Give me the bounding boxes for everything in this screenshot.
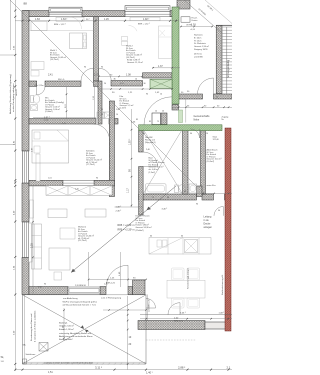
svg-text:1.63 ³: 1.63 ³ — [61, 18, 67, 21]
desk bedroom1 — [31, 22, 47, 31]
toilet bad — [175, 185, 179, 193]
kitchen counter — [149, 238, 211, 255]
svg-text:14: 14 — [155, 111, 157, 113]
window left 2 — [22, 222, 28, 258]
svg-text:(St 9cm): (St 9cm) — [194, 53, 202, 56]
svg-text:2,10: 2,10 — [38, 287, 42, 289]
svg-text:2,26: 2,26 — [75, 189, 79, 191]
svg-text:1,38 ³: 1,38 ³ — [116, 205, 122, 208]
svg-text:122,40: 122,40 — [213, 139, 220, 141]
wall green stub gemeinschaft — [179, 110, 183, 123]
window sash arc bedroom2 — [129, 25, 138, 31]
dim line abstell top — [196, 193, 232, 195]
window living bottom — [68, 287, 100, 294]
sofa living — [32, 224, 42, 269]
svg-text:90: 90 — [196, 204, 198, 206]
svg-text:20: 20 — [104, 83, 106, 85]
svg-text:90: 90 — [167, 197, 169, 199]
wall schlafen bottom — [29, 180, 63, 186]
svg-text:2,41: 2,41 — [48, 74, 53, 77]
dashed line dining — [146, 339, 196, 341]
svg-text:Steigung 18/26: Steigung 18/26 — [194, 48, 208, 51]
dining chairs top — [167, 268, 205, 308]
dim line gemeinschaft — [172, 106, 232, 108]
door terrace living — [106, 265, 128, 287]
radiator bedroom2 — [130, 17, 160, 21]
beam line bedroom1 — [29, 30, 94, 32]
svg-text:(Wpg und F): (Wpg und F) — [145, 142, 156, 144]
svg-text:1,40 ³: 1,40 ³ — [146, 371, 153, 375]
svg-text:FB: LG: FB: LG — [58, 79, 65, 81]
wall bad east vertical — [183, 129, 189, 194]
door wc — [37, 86, 45, 94]
svg-text:Gemeinschafts: Gemeinschafts — [194, 115, 211, 118]
svg-text:unten Flur: unten Flur — [207, 184, 216, 187]
svg-text:1.37: 1.37 — [158, 65, 163, 68]
wall green band mid horizontal — [139, 125, 222, 131]
dim column dining west — [120, 252, 122, 287]
wall bedroom1 bottom — [29, 81, 37, 86]
svg-text:Erweiterung über Rinne und: Erweiterung über Rinne und — [30, 313, 33, 341]
svg-text:2,1: 2,1 — [227, 365, 231, 369]
leader line left — [0, 144, 15, 146]
dining table — [167, 280, 205, 298]
svg-text:14: 14 — [206, 133, 208, 135]
svg-text:2,26 BRH 90: 2,26 BRH 90 — [75, 285, 86, 287]
wall red east vertical — [225, 128, 231, 331]
wall bottom living room — [29, 287, 68, 295]
wall left exterior — [22, 11, 29, 152]
svg-text:90: 90 — [143, 133, 145, 135]
diagonal section line main — [10, 0, 197, 187]
svg-text:Laufsteg in Stahl (verzinkt) a: Laufsteg in Stahl (verzinkt) auf Drehste… — [44, 362, 94, 365]
svg-text:Gesamt: 3,90 m²: Gesamt: 3,90 m² — [194, 45, 209, 48]
nightstand bedroom2 b — [122, 41, 128, 45]
dim line wohnen door — [89, 279, 147, 281]
svg-text:1.92 ³: 1.92 ³ — [143, 18, 149, 21]
nightstand bedroom2 a — [122, 37, 128, 41]
svg-text:St: Werkstein: St: Werkstein — [194, 42, 206, 45]
svg-text:2,88 ³: 2,88 ³ — [178, 365, 185, 369]
wardrobe hall boxes — [97, 112, 104, 119]
svg-text:BRH + 1,32 ³: BRH + 1,32 ³ — [54, 23, 66, 26]
wall shaft block — [197, 186, 203, 197]
escape route arrow — [71, 186, 176, 273]
svg-text:2,07: 2,07 — [94, 74, 99, 77]
svg-text:2,25: 2,25 — [31, 243, 34, 248]
wall green vertical east — [172, 7, 179, 104]
dim line dining south — [140, 318, 232, 320]
leader line top-left vertical — [10, 0, 12, 50]
svg-text:B4 x 2,13m: B4 x 2,13m — [35, 85, 45, 87]
dim column terrace right — [127, 296, 129, 370]
shaft green box hall — [150, 79, 172, 88]
svg-text:2,36 ³: 2,36 ³ — [116, 209, 122, 212]
svg-text:Bodengefälle²: Bodengefälle² — [59, 338, 73, 341]
svg-text:4 Jalousien als Fahne ausbilde: 4 Jalousien als Fahne ausbilden — [35, 310, 37, 342]
terrace bottom edge — [23, 363, 147, 365]
svg-text:3,06 ³: 3,06 ³ — [180, 312, 186, 315]
svg-text:14: 14 — [135, 79, 137, 81]
bed schlafen — [32, 130, 69, 163]
wall hall lower band — [111, 81, 143, 87]
window top 1 sill — [49, 7, 82, 13]
svg-text:Kasten: Kasten — [192, 19, 198, 22]
bad room X diagonal 1 — [143, 129, 182, 194]
svg-text:36: 36 — [114, 79, 116, 81]
svg-text:1,51: 1,51 — [48, 371, 53, 374]
svg-text:zum 2.¹Rettungsweg: zum 2.¹Rettungsweg — [101, 296, 122, 299]
dim line corridor bottom — [115, 206, 144, 208]
wall stair west vertical — [216, 25, 222, 93]
coffee table living — [49, 248, 70, 270]
svg-text:90: 90 — [190, 133, 192, 135]
wall abstell west vertical — [201, 129, 206, 194]
radiator wohnen left — [30, 200, 34, 218]
wall kitchen-bad band — [139, 194, 197, 200]
svg-text:90: 90 — [96, 178, 98, 180]
dim line top — [15, 20, 179, 22]
wire niche line gemeinschaft — [185, 99, 187, 123]
bathtub bad — [146, 184, 167, 194]
armchair living — [60, 228, 75, 239]
svg-text:14: 14 — [216, 97, 218, 99]
svg-text:Abdichtung und umlaufende Rinn: Abdichtung und umlaufende Rinne — [59, 335, 93, 338]
drain channel box SA — [39, 343, 48, 352]
wall bedroom divider vertical — [94, 17, 99, 81]
wall terrace planter band — [138, 321, 205, 330]
bed bedroom2 — [159, 26, 172, 59]
stair treads — [222, 27, 232, 90]
terrace right edge — [145, 295, 147, 365]
svg-text:1.63: 1.63 — [35, 18, 40, 21]
side table wohnen — [54, 272, 62, 280]
svg-text:1,17: 1,17 — [127, 188, 130, 193]
svg-text:1,92 ³: 1,92 ³ — [129, 139, 132, 145]
svg-text:+0,14: +0,14 — [190, 29, 195, 31]
door gang — [191, 129, 200, 138]
dim column wohnen mid — [88, 252, 90, 286]
dim schlafen top — [33, 116, 96, 118]
diagonal top right 1 — [184, 0, 223, 34]
door abstell east — [214, 207, 223, 216]
svg-text:1,01: 1,01 — [48, 178, 52, 180]
window small label box right top — [181, 17, 190, 22]
wardrobe row wohnen — [46, 186, 112, 196]
svg-text:Estrich 1,98 m³: Estrich 1,98 m³ — [59, 328, 74, 331]
wall top exterior — [23, 11, 49, 17]
svg-text:1,08 ³: 1,08 ³ — [219, 312, 225, 315]
radiator bedroom1 — [56, 17, 84, 21]
svg-text:20: 20 — [101, 114, 103, 116]
wall bad west vertical — [139, 131, 144, 152]
svg-text:(17,75m²): (17,75m²) — [86, 163, 95, 166]
svg-text:OK FB: OK FB — [186, 25, 192, 27]
svg-text:mit Gegenläufig: mit Gegenläufig — [226, 59, 230, 78]
dim line left column — [14, 0, 16, 371]
svg-text:BRH + 1,32 ³: BRH + 1,32 ³ — [138, 23, 150, 26]
dim line right top — [180, 26, 213, 28]
wall hall upper band — [143, 73, 173, 78]
svg-text:Nachweis: Nachweis — [194, 35, 203, 37]
sink bad — [189, 184, 197, 193]
svg-text:2,46: 2,46 — [146, 149, 150, 151]
bed bedroom1 — [70, 33, 87, 49]
svg-text:2,41: 2,41 — [44, 120, 48, 122]
svg-text:Abdichtung Wandanschluss (Ergä: Abdichtung Wandanschluss (Ergänzung) — [9, 74, 12, 114]
svg-text:anlegen: anlegen — [204, 226, 213, 229]
svg-text:90 ³: 90 ³ — [86, 18, 90, 21]
terrace X diagonal 2 — [23, 295, 147, 364]
bad room X diagonal 2 — [143, 129, 182, 194]
svg-text:20: 20 — [162, 111, 164, 113]
svg-text:85: 85 — [149, 121, 151, 123]
wall wc-hall vertical — [98, 81, 102, 124]
svg-text:Bodenpl.: Bodenpl. — [59, 323, 68, 325]
svg-text:(10,5m²): (10,5m²) — [207, 160, 215, 163]
svg-text:unterseitig, Abstellung Boden: unterseitig, Abstellung Boden auf — [59, 332, 91, 335]
svg-text:Nebe: Nebe — [194, 119, 200, 122]
dim line terrace door lower — [103, 309, 146, 311]
diagonal top right 2 — [205, 0, 232, 24]
svg-text:Stahlrinne: Stahlrinne — [26, 353, 37, 356]
wall shaft boxes hall — [152, 113, 161, 125]
door terrace side — [146, 299, 156, 309]
svg-text:14: 14 — [116, 114, 118, 116]
svg-text:(25x8m²): (25x8m²) — [136, 229, 144, 232]
svg-text:(25,75m²): (25,75m²) — [78, 239, 87, 242]
wall band below stair — [178, 94, 203, 99]
svg-text:1,25: 1,25 — [104, 284, 108, 286]
terrace left edge — [22, 295, 24, 365]
svg-text:88: 88 — [24, 2, 28, 6]
svg-text:WaPro Drainageunterlegend (p,E: WaPro Drainageunterlegend (p,EL) — [63, 300, 97, 303]
svg-text:14: 14 — [160, 94, 162, 96]
window top 2 sill — [125, 6, 170, 12]
svg-text:90: 90 — [146, 94, 148, 96]
svg-text:60: 60 — [181, 236, 183, 238]
svg-text:RFB = +2,35³ m: RFB = +2,35³ m — [118, 229, 135, 232]
svg-text:60: 60 — [150, 236, 152, 238]
svg-text:2,41: 2,41 — [62, 123, 66, 125]
door bad — [143, 152, 158, 167]
svg-text:90: 90 — [84, 67, 86, 69]
svg-text:Nr.: Nr. — [222, 119, 225, 121]
svg-text:95: 95 — [101, 109, 103, 111]
svg-text:Gesamt: 56,36 m²: Gesamt: 56,36 m² — [136, 226, 152, 229]
window schlafen bottom — [63, 181, 94, 186]
window left 1 — [22, 151, 28, 183]
dining south edge line — [140, 314, 232, 316]
svg-text:an den Durchgang anbringen: an den Durchgang anbringen — [12, 83, 15, 112]
dresser bedroom1 — [31, 62, 44, 70]
dim line bottom main — [15, 369, 232, 371]
door flur wide — [144, 97, 172, 125]
svg-text:90: 90 — [101, 67, 103, 69]
svg-text:75: 75 — [152, 197, 154, 199]
svg-text:H: 13cm: H: 13cm — [194, 40, 202, 42]
door stair room — [198, 78, 214, 94]
svg-text:3,11 ³: 3,11 ³ — [95, 365, 102, 369]
svg-text:1.93: 1.93 — [191, 24, 196, 27]
svg-text:circa R: circa R — [15, 89, 18, 96]
terrace top edge line — [23, 294, 147, 296]
door dining south — [168, 303, 180, 315]
svg-text:3,46 ³: 3,46 ³ — [162, 208, 168, 211]
svg-text:90: 90 — [44, 284, 46, 286]
svg-text:1,00 BRH1,35: 1,00 BRH1,35 — [149, 299, 151, 312]
svg-text:Gefälle 2,06 m³: Gefälle 2,06 m³ — [59, 325, 74, 328]
door bedroom2 — [99, 68, 112, 81]
wall box below green wall — [172, 105, 179, 110]
svg-text:(2,5m²): (2,5m²) — [120, 106, 127, 109]
svg-text:Nachbarbebauung o.B.: Nachbarbebauung o.B. — [222, 274, 224, 295]
svg-text:nur Abdichtung: nur Abdichtung — [63, 297, 78, 300]
svg-text:B: 13cm: B: 13cm — [194, 37, 202, 39]
svg-text:BRH+1,00: BRH+1,00 — [174, 320, 183, 322]
dim line hall — [99, 75, 142, 77]
stair rail — [226, 27, 228, 94]
wall stub dining — [133, 280, 146, 295]
wc toilet — [31, 96, 34, 103]
svg-text:1,01: 1,01 — [120, 83, 124, 85]
svg-text:1.26: 1.26 — [104, 18, 109, 21]
svg-text:85: 85 — [136, 119, 138, 121]
svg-text:Gesamt: 11,15 m²: Gesamt: 11,15 m² — [127, 61, 143, 64]
svg-text:ab Wasserführende Schicht < 7c: ab Wasserführende Schicht < 7cm — [63, 304, 97, 307]
door schlafen — [94, 124, 110, 140]
wall wc bottom band — [29, 119, 96, 125]
dim column wohnen left — [32, 186, 34, 294]
svg-text:Schiebetür ggf. anlegen: Schiebetür ggf. anlegen — [187, 268, 190, 289]
svg-text:RFB = +2,36¹ m: RFB = +2,36¹ m — [118, 224, 135, 227]
door bedroom1 — [81, 68, 94, 81]
svg-text:1.08: 1.08 — [126, 74, 131, 77]
svg-text:(14,75m²): (14,75m²) — [126, 56, 135, 59]
dim column terrace mid — [63, 308, 65, 341]
dim column corridor — [131, 109, 133, 207]
sideboard living top — [48, 209, 67, 218]
svg-text:St,: St, — [1, 355, 5, 359]
svg-text:(2,5m²): (2,5m²) — [149, 171, 156, 174]
terrace X diagonal 1 — [23, 295, 147, 364]
svg-text:antritt 88h: antritt 88h — [194, 55, 203, 58]
svg-text:30: 30 — [218, 210, 220, 212]
svg-text:alt: 4,46 m²: alt: 4,46 m² — [149, 168, 159, 171]
wall schlafen-corridor vertical — [109, 101, 114, 197]
svg-text:75: 75 — [157, 121, 159, 123]
svg-text:30: 30 — [144, 83, 146, 85]
dining chairs bottom — [172, 298, 185, 308]
svg-text:(2,06m²): (2,06m²) — [45, 110, 53, 113]
dim wc vertical — [94, 86, 96, 118]
wall block above green wall — [177, 0, 190, 9]
svg-text:14: 14 — [97, 79, 99, 81]
svg-text:45: 45 — [184, 191, 186, 193]
wc sink — [31, 105, 38, 111]
svg-text:(14,75m²): (14,75m²) — [50, 58, 59, 61]
window sash arc bedroom1 — [70, 17, 82, 29]
